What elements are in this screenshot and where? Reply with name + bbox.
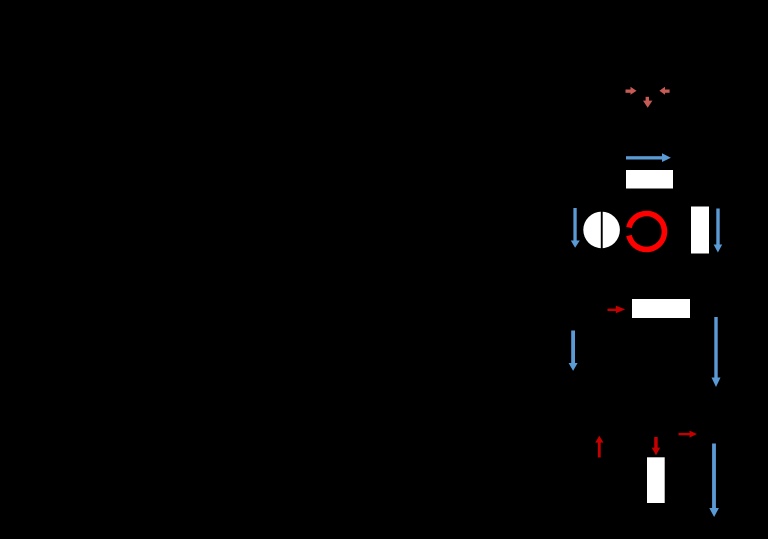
reheat inlet arrow (dark red, pointing right) — [608, 306, 626, 314]
drain arrow (dark red, pointing down) — [652, 437, 661, 455]
downflow arrow right-mid (blue, pointing down) — [712, 317, 721, 387]
fan symbol (white circle with vertical line) — [583, 212, 620, 249]
reheat box (white rect) — [632, 299, 690, 318]
exit airflow arrow (long blue, pointing down) — [709, 444, 719, 518]
airflow arrow right of coil (blue, pointing down) — [714, 209, 723, 253]
dashed intake arrow left (salmon, pointing right) — [626, 87, 637, 95]
heating coil (white vertical rect) — [691, 207, 709, 254]
dashed intake arrow center (salmon, pointing down) — [643, 97, 652, 108]
condensate arrow (dark red, pointing up) — [595, 436, 603, 458]
supply air arrow (blue, pointing right) — [626, 153, 671, 162]
rotation indicator (red open ring) — [629, 214, 664, 250]
outlet arrow (dark red, pointing right) — [679, 431, 698, 438]
dashed intake arrow right (salmon, pointing left) — [659, 87, 669, 95]
downflow arrow left-mid (blue, pointing down) — [569, 331, 578, 371]
filter box (white rect) — [626, 170, 673, 189]
trap box (white vertical rect) — [647, 457, 665, 503]
airflow arrow left of fan (blue, pointing down) — [571, 208, 580, 248]
